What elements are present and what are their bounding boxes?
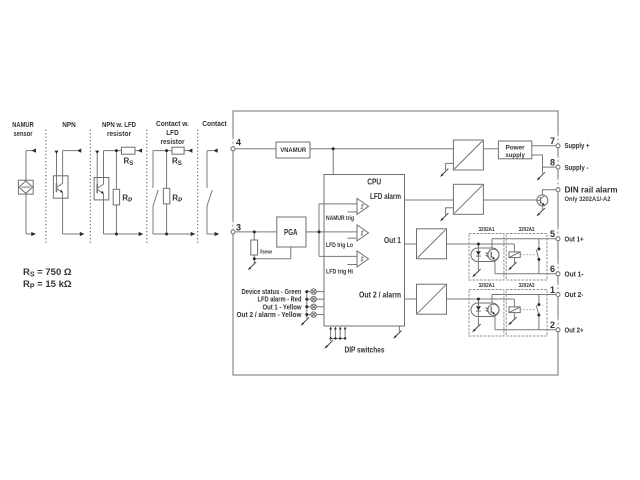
svg-text:3202A1: 3202A1 [479, 283, 495, 289]
svg-text:PGA: PGA [284, 227, 298, 237]
svg-text:RS = 750 Ω: RS = 750 Ω [23, 267, 72, 279]
svg-text:sensor: sensor [14, 131, 33, 138]
svg-text:Out 2+: Out 2+ [565, 326, 584, 335]
svg-text:Supply -: Supply - [565, 163, 589, 172]
svg-text:Power: Power [506, 145, 525, 152]
svg-text:LFD trig Hi: LFD trig Hi [326, 270, 353, 276]
svg-text:NPN w. LFD: NPN w. LFD [102, 122, 136, 129]
svg-text:LFD alarm - Red: LFD alarm - Red [258, 297, 302, 304]
svg-text:CPU: CPU [367, 177, 381, 186]
svg-text:Out 2 / alarm: Out 2 / alarm [359, 290, 401, 299]
svg-text:DIP switches: DIP switches [345, 346, 385, 355]
svg-text:6: 6 [550, 264, 555, 274]
svg-text:Only 3202A1/-A2: Only 3202A1/-A2 [565, 196, 611, 203]
svg-text:2: 2 [550, 320, 555, 330]
svg-text:VNAMUR: VNAMUR [280, 147, 307, 154]
svg-text:4: 4 [236, 137, 241, 147]
svg-text:Out 1-: Out 1- [565, 270, 584, 279]
svg-text:supply: supply [505, 152, 525, 159]
svg-text:1: 1 [550, 285, 555, 295]
svg-text:LFD: LFD [166, 130, 179, 137]
svg-text:Out 1 - Yellow: Out 1 - Yellow [263, 304, 302, 311]
svg-text:Out 2-: Out 2- [565, 290, 584, 299]
svg-text:Device status - Green: Device status - Green [242, 289, 302, 296]
svg-text:Out 1: Out 1 [384, 236, 401, 245]
svg-text:3: 3 [236, 223, 241, 233]
svg-text:LFD trig Lo: LFD trig Lo [326, 243, 353, 249]
svg-text:resistor: resistor [107, 131, 131, 138]
svg-text:8: 8 [550, 157, 555, 167]
svg-text:Rsense: Rsense [260, 250, 272, 256]
svg-text:RP: RP [172, 194, 182, 204]
svg-text:NPN: NPN [62, 122, 76, 129]
svg-text:resistor: resistor [161, 139, 185, 146]
svg-text:RP: RP [122, 194, 132, 204]
svg-text:LFD alarm: LFD alarm [370, 192, 401, 201]
svg-text:7: 7 [550, 136, 555, 146]
svg-text:DIN rail alarm: DIN rail alarm [565, 185, 618, 194]
svg-text:3202A2: 3202A2 [519, 227, 535, 233]
svg-text:Supply +: Supply + [565, 141, 590, 150]
svg-text:RP = 15 kΩ: RP = 15 kΩ [23, 279, 72, 291]
svg-text:Contact w.: Contact w. [156, 121, 189, 128]
svg-text:3202A2: 3202A2 [519, 283, 535, 289]
svg-text:Out 2 / alarm - Yellow: Out 2 / alarm - Yellow [237, 312, 303, 319]
svg-text:NAMUR trig: NAMUR trig [326, 216, 354, 222]
svg-text:3202A1: 3202A1 [479, 227, 495, 233]
svg-text:Out 1+: Out 1+ [565, 235, 584, 244]
svg-text:NAMUR: NAMUR [12, 122, 34, 129]
svg-text:5: 5 [550, 229, 555, 239]
svg-text:Contact: Contact [202, 121, 227, 128]
svg-text:RS: RS [172, 157, 182, 167]
svg-text:RS: RS [124, 157, 134, 167]
